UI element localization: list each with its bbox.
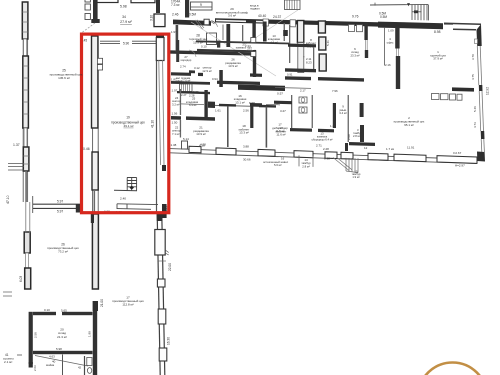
stairs room19 [114, 178, 137, 191]
room 20 right wall [93, 311, 97, 357]
svg-text:7.96: 7.96 [332, 89, 338, 93]
room 20 bottom wall [33, 351, 93, 354]
svg-text:4.75: 4.75 [471, 74, 475, 80]
svg-text:2.40: 2.40 [120, 196, 126, 200]
room 23 west wall thin [242, 25, 243, 41]
room 23 east wall [263, 22, 267, 42]
wall middle lower block [93, 301, 98, 311]
svg-text:21.3 м²: 21.3 м² [57, 335, 67, 339]
porch rect with 9 label [191, 2, 213, 10]
svg-text:42: 42 [78, 366, 82, 370]
east wall block 1 [157, 214, 163, 221]
window sill ticks left [8, 164, 24, 171]
right wall extension [93, 357, 97, 375]
small room 42 wall [84, 356, 86, 375]
svg-text:4.6 м²: 4.6 м² [270, 40, 278, 44]
wall top main segment mid [336, 21, 378, 26]
svg-text:2.1 м²: 2.1 м² [4, 360, 12, 364]
svg-text:4.73: 4.73 [473, 122, 477, 128]
svg-text:0.10: 0.10 [201, 45, 207, 49]
wall foot flare [91, 19, 99, 23]
svg-text:1.9 м²: 1.9 м² [352, 175, 359, 179]
wall vertical x185 top [185, 0, 189, 18]
partition y104 west [180, 103, 204, 106]
wall y82 west [171, 81, 210, 85]
svg-text:2.58: 2.58 [34, 332, 38, 338]
svg-text:2.63: 2.63 [33, 365, 37, 371]
partition y45 [288, 44, 316, 48]
door tick [158, 260, 166, 262]
svg-text:2.27: 2.27 [181, 93, 187, 97]
svg-text:5.46: 5.46 [473, 106, 477, 112]
svg-text:37.9 м²: 37.9 м² [433, 57, 442, 61]
svg-text:2.46: 2.46 [172, 13, 179, 17]
svg-text:30.66: 30.66 [243, 157, 251, 161]
right wall dark bottom [162, 204, 167, 218]
outside stairs [346, 158, 358, 173]
room 24 partition [180, 89, 181, 115]
pier 3 [258, 149, 275, 156]
corridor lower wall line y50 [197, 49, 253, 53]
wall middle backbone lines [93, 36, 99, 212]
svg-text:3.27: 3.27 [280, 109, 286, 113]
svg-text:2.74: 2.74 [180, 64, 186, 68]
wall middle lower dark head [91, 214, 94, 223]
svg-text:0.98: 0.98 [324, 157, 330, 161]
svg-text:3.6 м²: 3.6 м² [228, 14, 236, 18]
east wall double thin lines [157, 214, 160, 375]
partition x284 [284, 23, 285, 41]
pier 1 [189, 146, 201, 153]
wall y82 east [217, 81, 260, 85]
room 27 west wall [176, 40, 179, 62]
svg-text:112.8 м²: 112.8 м² [122, 303, 133, 307]
wall top edge piece a [97, 0, 119, 3]
svg-text:5.97: 5.97 [57, 209, 63, 213]
partition x348 [348, 95, 349, 142]
partition y102 bar [274, 101, 292, 105]
wc fixture [87, 368, 91, 374]
wall left lower segment 2 [25, 268, 31, 289]
small wall y75 left [250, 73, 262, 77]
window box upper-left 0 [85, 0, 90, 2]
room 4 inner line [384, 28, 385, 66]
svg-text:2.17: 2.17 [300, 89, 306, 93]
east wall x366 [364, 22, 367, 40]
right wall window run 1 [477, 46, 481, 85]
svg-text:7.3 м²: 7.3 м² [171, 3, 180, 7]
svg-text:0.5M: 0.5M [379, 12, 386, 16]
room 28 west wall [176, 25, 179, 52]
svg-text:3.70: 3.70 [471, 54, 475, 60]
svg-text:2.16: 2.16 [385, 63, 391, 67]
pier 2 [216, 148, 236, 155]
svg-text:2.56: 2.56 [243, 109, 249, 113]
pier 6 [341, 152, 353, 159]
orange arc logo watermark [418, 363, 487, 375]
svg-text:40.40: 40.40 [258, 14, 266, 18]
svg-text:2.28: 2.28 [323, 147, 329, 151]
stairs top right [412, 4, 429, 20]
partition y106 [213, 105, 275, 107]
svg-text:23.3 м²: 23.3 м² [350, 53, 359, 57]
room 19 top inner double line [100, 41, 163, 43]
pier 4 [294, 151, 313, 158]
right wall notch [475, 39, 478, 44]
svg-text:0.46: 0.46 [83, 147, 90, 151]
pier gap 1 [263, 19, 269, 26]
left wall x251 low [250, 103, 253, 128]
fence line top [370, 3, 428, 6]
svg-text:4.63: 4.63 [49, 355, 55, 359]
svg-text:13.1 м²: 13.1 м² [235, 100, 244, 104]
wall top main segment west [173, 20, 211, 26]
east wall x205 of west rooms [204, 90, 207, 117]
wall x397 [395, 28, 399, 49]
T bar 1 [219, 104, 236, 107]
dim ticks lower left [3, 292, 12, 296]
svg-text:l=2.67: l=2.67 [453, 151, 462, 155]
svg-text:13.9 м²: 13.9 м² [196, 132, 205, 136]
svg-text:0.5M: 0.5M [189, 13, 196, 17]
partition y88 thin [275, 87, 311, 90]
svg-text:21.00: 21.00 [100, 299, 104, 307]
svg-text:1.38: 1.38 [171, 143, 177, 147]
door square west end [204, 19, 209, 25]
T block [189, 70, 195, 73]
tambour 14 box [299, 155, 313, 167]
T bar 2 [259, 105, 276, 108]
wall left exterior segment 2 [23, 56, 29, 128]
room 20 top wall b [62, 312, 93, 315]
wall middle lower segment [92, 214, 98, 289]
corridor wall y51 [168, 50, 252, 55]
svg-text:5.90: 5.90 [123, 42, 129, 46]
svg-text:3.10: 3.10 [150, 15, 154, 21]
wall y92 below stairs [177, 91, 210, 94]
wall middle column segment 1 [92, 36, 98, 128]
svg-text:2.8 м²: 2.8 м² [353, 134, 360, 138]
room 22 partition [180, 120, 181, 138]
corridor upper wall line y41 [196, 40, 290, 44]
svg-text:24.37: 24.37 [273, 15, 281, 19]
room 20 top wall a [33, 312, 56, 315]
wall left exterior segment 1 [22, 2, 28, 39]
stairs lower corridor [180, 84, 193, 92]
wall y74 west [171, 72, 191, 76]
right wall block 3 [481, 131, 485, 139]
svg-text:1.37: 1.37 [13, 143, 20, 147]
wall x221 lower vertical [219, 70, 223, 87]
wall vertical x156 top [156, 0, 160, 13]
wall x218 stub [217, 41, 220, 48]
left inner tick vertical [32, 196, 34, 213]
stairs top middle (basement) [285, 0, 301, 10]
svg-text:11.91: 11.91 [407, 146, 415, 150]
red highlight rectangle [82, 34, 169, 213]
wall y118 dark [171, 116, 181, 120]
window box upper-left 1 [85, 4, 90, 10]
pier gap 2 [290, 20, 296, 27]
door arc top [212, 21, 218, 27]
svg-text:9.76: 9.76 [352, 15, 359, 19]
partition y130 [290, 128, 312, 132]
box A tick [165, 250, 169, 255]
svg-text:офис: офис [387, 40, 394, 44]
bathroom partition x291 [291, 95, 292, 128]
bottom interior double line [117, 204, 158, 210]
wall left lower segment 1 [24, 232, 30, 253]
tick mark left bottom [17, 354, 22, 356]
svg-text:5.14: 5.14 [183, 137, 189, 141]
room 19 right outer window lines [159, 60, 164, 165]
right wall dark mid [162, 165, 166, 171]
door hatch ticks [210, 20, 215, 24]
wall x334 [333, 103, 336, 128]
masonry ticks left wall [22, 12, 29, 164]
svg-text:27.9 м²: 27.9 м² [120, 20, 132, 24]
svg-text:95.1 м²: 95.1 м² [404, 123, 413, 127]
svg-text:0.5M: 0.5M [380, 15, 387, 19]
left wall window run continue [26, 202, 30, 233]
hollow hint line top wall [216, 21, 265, 22]
wc stall 2 [299, 107, 307, 113]
room28 thin side wall [222, 25, 224, 41]
window box upper-left 2 [85, 14, 90, 20]
svg-text:1.56: 1.56 [172, 112, 178, 116]
svg-text:уборщицы 6.4 м²: уборщицы 6.4 м² [311, 137, 332, 141]
wall y144 [349, 142, 375, 146]
svg-text:12.9 м²: 12.9 м² [202, 69, 211, 73]
pier 8 long [394, 154, 426, 162]
svg-text:6.4 м²: 6.4 м² [189, 103, 197, 107]
diagonal tie line [82, 23, 95, 33]
window left 1 [24, 39, 27, 56]
svg-text:гладильная: гладильная [249, 85, 264, 88]
svg-text:0.94: 0.94 [212, 77, 218, 81]
svg-text:1.50: 1.50 [172, 121, 178, 125]
wall stub x77 [76, 204, 80, 213]
svg-text:2.8 м²: 2.8 м² [302, 164, 310, 168]
svg-text:47.10: 47.10 [6, 195, 10, 204]
partition vertical room18 [227, 106, 229, 147]
pier 9 long [437, 156, 477, 164]
wall top main thick east [378, 22, 443, 30]
svg-text:34: 34 [122, 15, 126, 19]
jog wall [208, 102, 215, 109]
window boxes wallB [97, 58, 102, 64]
right wall top hollow box [156, 38, 164, 61]
wall left exterior segment 3 [23, 147, 29, 171]
middle column west wall lower [253, 50, 256, 77]
wall stub right with room corner [154, 14, 165, 27]
svg-text:3.12: 3.12 [194, 66, 200, 70]
svg-text:1.14: 1.14 [330, 124, 336, 128]
svg-text:11.6 м²: 11.6 м² [276, 129, 285, 133]
svg-text:1.61: 1.61 [215, 109, 221, 113]
partition x313 [313, 48, 314, 72]
right wall block 2 [479, 85, 483, 91]
svg-text:12.92: 12.92 [486, 87, 490, 95]
svg-text:5.98: 5.98 [120, 5, 127, 9]
room 40 wall vertical thin [62, 355, 64, 375]
svg-text:19: 19 [126, 116, 130, 120]
room 19 right inner line [156, 35, 158, 212]
svg-text:5.97: 5.97 [57, 200, 63, 204]
window left lower [26, 253, 29, 268]
diagonal sight line [191, 22, 276, 76]
svg-text:подвал: подвал [250, 7, 260, 11]
wc stall 1 [299, 97, 307, 103]
east wall hollow box A [155, 230, 165, 256]
closet boxes room6 [349, 25, 355, 32]
dark square [283, 30, 288, 36]
pier 5 [325, 152, 337, 159]
right wall segment 1 [477, 24, 482, 46]
right wall bottom corner [477, 152, 485, 162]
svg-text:3.2 м²: 3.2 м² [172, 102, 180, 106]
long wall y78 [285, 76, 311, 80]
svg-text:3.4 м²: 3.4 м² [339, 111, 347, 115]
east wall hollow box B [157, 279, 165, 287]
room 20 left wall [29, 312, 33, 364]
wall x298 lower [298, 43, 304, 73]
svg-text:5.98: 5.98 [56, 347, 62, 351]
door arc corridor [189, 50, 196, 57]
svg-text:H=2.97: H=2.97 [455, 164, 465, 168]
svg-text:2.71: 2.71 [316, 143, 322, 147]
svg-text:7.1 м²: 7.1 м² [172, 132, 180, 136]
svg-text:12: 12 [364, 146, 368, 150]
window gap top right [444, 24, 453, 26]
right wall thin run 3 [481, 139, 484, 152]
svg-text:8.23: 8.23 [306, 61, 312, 65]
wall left backbone lines [23, 2, 27, 202]
door swing diagonals [195, 20, 204, 30]
wall top main segment long [215, 18, 336, 25]
fixture rect [182, 141, 188, 149]
right wall window run 2 [479, 91, 483, 131]
svg-text:145.6 м²: 145.6 м² [58, 76, 70, 80]
wall upper-left vertical [93, 0, 98, 22]
svg-text:16.30: 16.30 [167, 337, 171, 345]
svg-text:2.39: 2.39 [193, 90, 199, 94]
middle column west wall upper [252, 22, 255, 40]
svg-text:6.03: 6.03 [19, 276, 23, 282]
wall top right corner hollow lines [444, 22, 481, 25]
east wall hollow box D [159, 348, 167, 361]
shower box [87, 358, 92, 366]
bottom wall base lines [170, 149, 477, 160]
room 28 east wall [226, 24, 230, 47]
svg-text:2.90: 2.90 [347, 134, 351, 140]
svg-text:коридор: коридор [181, 58, 192, 62]
svg-text:1.09: 1.09 [388, 29, 394, 33]
notch box [117, 204, 127, 209]
double wall x298 [297, 21, 303, 43]
equipment row room 2 [432, 94, 440, 100]
room 28 shelf [207, 33, 217, 45]
partition vertical room17 [266, 107, 268, 148]
svg-text:22.00: 22.00 [168, 263, 172, 271]
svg-text:0.57: 0.57 [277, 92, 283, 96]
east wall hollow box C [158, 309, 166, 324]
wall x361 segs [360, 103, 364, 117]
svg-text:1.97: 1.97 [171, 30, 177, 34]
wall stub room1/room2 divider [452, 87, 474, 91]
svg-text:41.10: 41.10 [151, 120, 155, 128]
svg-text:49.1 м²: 49.1 м² [123, 124, 133, 128]
corner mark left [29, 362, 33, 368]
fixture b [251, 52, 256, 57]
right wall dark cap [156, 34, 164, 38]
bathroom partition x312 [312, 95, 313, 128]
corridor dark bar y86 [238, 85, 285, 91]
fixture a [251, 38, 256, 43]
partition x289 [289, 25, 290, 63]
svg-text:3.88: 3.88 [243, 145, 249, 149]
svg-text:5.65: 5.65 [61, 308, 67, 312]
svg-text:13.9 м²: 13.9 м² [228, 64, 237, 68]
window left 2 [24, 128, 27, 147]
svg-text:11.6 м²: 11.6 м² [276, 133, 285, 137]
wall middle column segment 2 [92, 152, 98, 190]
svg-text:5.6 м²: 5.6 м² [274, 163, 282, 167]
svg-text:4.38: 4.38 [200, 143, 206, 147]
window x366 [366, 40, 368, 50]
svg-text:13.3 м²: 13.3 м² [239, 131, 248, 135]
wall middle thin run [94, 190, 96, 212]
svg-text:73.2 м²: 73.2 м² [58, 250, 68, 254]
svg-text:1.7 кв: 1.7 кв [386, 147, 394, 151]
entrance diagonals [333, 158, 352, 171]
svg-text:1.99: 1.99 [88, 331, 92, 337]
wall left thin run [25, 171, 27, 202]
diagonal guideline [35, 356, 88, 367]
svg-text:0.91: 0.91 [287, 73, 293, 77]
svg-text:8.98: 8.98 [434, 30, 441, 34]
svg-text:5.41: 5.41 [326, 40, 330, 46]
svg-text:мойка: мойка [46, 363, 55, 367]
wall top edge piece b [131, 0, 155, 3]
svg-text:1.87: 1.87 [171, 78, 177, 82]
stub up [345, 143, 348, 151]
arrow head fence [407, 3, 410, 6]
svg-text:9: 9 [200, 3, 202, 7]
double line wall y205 [33, 204, 80, 208]
partition y70 [285, 68, 316, 72]
svg-text:2.34: 2.34 [245, 44, 251, 48]
svg-text:0.10: 0.10 [44, 308, 50, 312]
double wall x322 [318, 21, 325, 33]
window x397 [396, 49, 398, 57]
svg-text:1.97: 1.97 [172, 89, 178, 93]
partition y103 left [250, 103, 262, 107]
pier 7 [368, 153, 388, 160]
